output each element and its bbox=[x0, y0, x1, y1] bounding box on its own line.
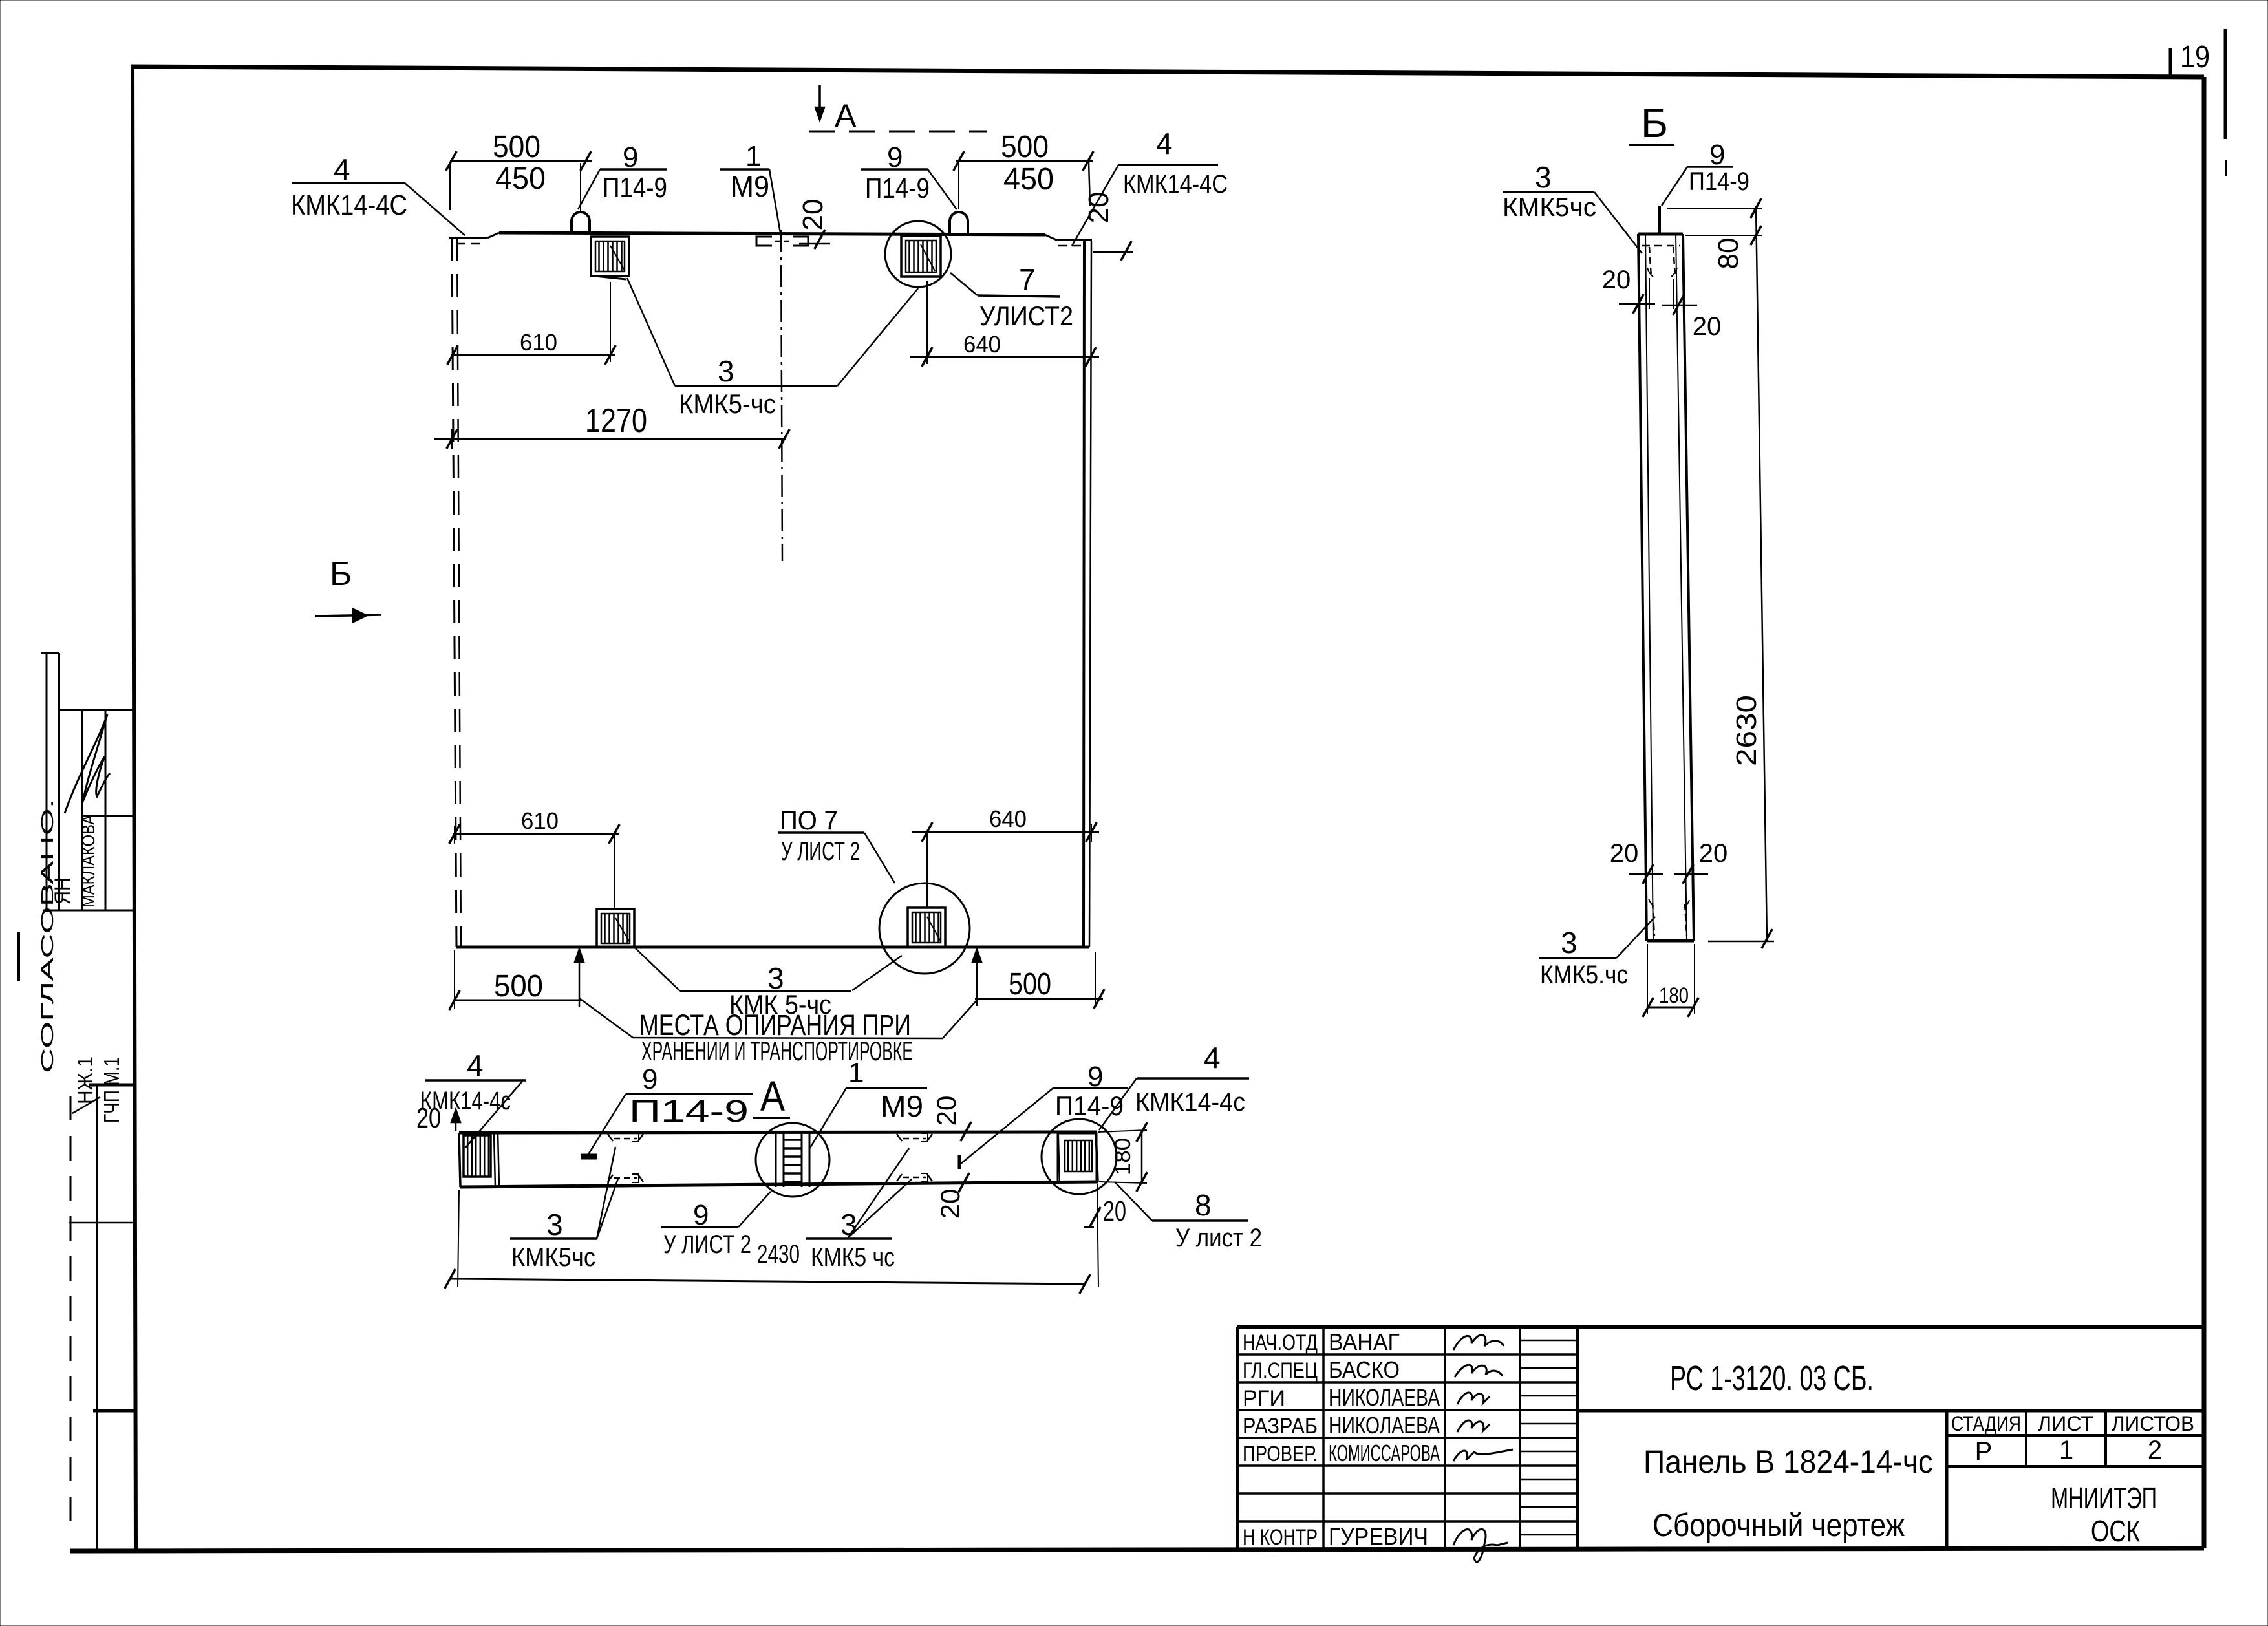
svg-text:НИКОЛАЕВА: НИКОЛАЕВА bbox=[1329, 1384, 1440, 1411]
svg-text:ПО 7: ПО 7 bbox=[780, 805, 838, 835]
svg-text:ПРОВЕР.: ПРОВЕР. bbox=[1243, 1442, 1318, 1466]
svg-text:ВАНАГ: ВАНАГ bbox=[1329, 1329, 1400, 1355]
svg-text:КМК14-4С: КМК14-4С bbox=[1123, 170, 1228, 198]
svg-text:9: 9 bbox=[642, 1064, 658, 1095]
svg-text:МАКЛАКОВА: МАКЛАКОВА bbox=[78, 815, 98, 908]
svg-text:500: 500 bbox=[494, 969, 543, 1003]
svg-text:ЛИСТОВ: ЛИСТОВ bbox=[2112, 1412, 2194, 1435]
svg-text:20: 20 bbox=[1103, 1195, 1126, 1227]
svg-text:2630: 2630 bbox=[1731, 695, 1762, 766]
svg-text:П14-9: П14-9 bbox=[1689, 167, 1749, 196]
svg-text:КМК5.чс: КМК5.чс bbox=[1540, 961, 1628, 989]
svg-text:Р: Р bbox=[1975, 1437, 1993, 1466]
svg-text:НЖ.1: НЖ.1 bbox=[73, 1056, 97, 1104]
svg-text:М9: М9 bbox=[731, 169, 769, 203]
svg-text:РАЗРАБ: РАЗРАБ bbox=[1243, 1414, 1318, 1439]
svg-text:СТАДИЯ: СТАДИЯ bbox=[1951, 1412, 2021, 1435]
svg-text:П14-9: П14-9 bbox=[865, 173, 930, 204]
svg-text:640: 640 bbox=[963, 331, 1001, 358]
svg-text:1: 1 bbox=[848, 1057, 864, 1089]
svg-text:80: 80 bbox=[1713, 238, 1744, 270]
svg-text:2: 2 bbox=[2148, 1436, 2162, 1464]
svg-text:4: 4 bbox=[467, 1049, 484, 1082]
svg-text:20: 20 bbox=[1699, 839, 1728, 868]
svg-text:610: 610 bbox=[520, 329, 557, 356]
svg-text:У ЛИСТ 2: У ЛИСТ 2 bbox=[781, 837, 860, 866]
svg-text:4: 4 bbox=[334, 153, 350, 186]
svg-text:20: 20 bbox=[416, 1102, 441, 1134]
svg-text:ХРАНЕНИИ И ТРАНСПОРТИРОВКЕ: ХРАНЕНИИ И ТРАНСПОРТИРОВКЕ bbox=[641, 1036, 913, 1066]
svg-text:БАСКО: БАСКО bbox=[1329, 1356, 1400, 1383]
svg-text:П14-9: П14-9 bbox=[603, 172, 667, 204]
svg-text:НИКОЛАЕВА: НИКОЛАЕВА bbox=[1329, 1412, 1440, 1439]
svg-text:3: 3 bbox=[718, 354, 734, 388]
svg-text:КМК14-4С: КМК14-4С bbox=[291, 189, 407, 221]
svg-text:М9: М9 bbox=[881, 1089, 923, 1123]
svg-text:20: 20 bbox=[931, 1096, 961, 1126]
svg-text:500: 500 bbox=[1009, 967, 1051, 1001]
svg-text:3: 3 bbox=[1535, 160, 1552, 194]
svg-text:КМК14-4с: КМК14-4с bbox=[1135, 1088, 1245, 1117]
svg-text:А: А bbox=[835, 98, 857, 134]
svg-text:КМК5-чс: КМК5-чс bbox=[679, 389, 776, 419]
svg-text:ОСК: ОСК bbox=[2091, 1514, 2140, 1548]
svg-text:СОГЛАСОВАНО.: СОГЛАСОВАНО. bbox=[37, 798, 57, 1073]
svg-text:У лист 2: У лист 2 bbox=[1175, 1224, 1262, 1252]
svg-text:20: 20 bbox=[1693, 312, 1722, 341]
svg-text:1270: 1270 bbox=[585, 402, 647, 440]
svg-text:500: 500 bbox=[1001, 130, 1049, 164]
svg-text:РС 1-3120. 03 СБ.: РС 1-3120. 03 СБ. bbox=[1670, 1359, 1874, 1398]
svg-text:УЛИСТ2: УЛИСТ2 bbox=[979, 301, 1073, 331]
svg-text:КМК5чс: КМК5чс bbox=[511, 1243, 595, 1272]
svg-text:ГЧП М.1: ГЧП М.1 bbox=[100, 1057, 123, 1123]
svg-text:КМК5 чс: КМК5 чс bbox=[811, 1243, 895, 1272]
svg-text:180: 180 bbox=[1659, 983, 1689, 1008]
svg-text:КОМИССАРОВА: КОМИССАРОВА bbox=[1329, 1440, 1440, 1466]
svg-text:НАЧ.ОТД: НАЧ.ОТД bbox=[1243, 1331, 1318, 1355]
svg-text:20: 20 bbox=[1610, 839, 1639, 868]
svg-text:Б: Б bbox=[330, 555, 352, 593]
svg-text:Панель В 1824-14-чс: Панель В 1824-14-чс bbox=[1643, 1444, 1933, 1480]
svg-text:500: 500 bbox=[493, 130, 540, 164]
svg-text:П14-9: П14-9 bbox=[1055, 1091, 1124, 1121]
svg-text:4: 4 bbox=[1156, 127, 1173, 160]
svg-text:ЛИСТ: ЛИСТ bbox=[2038, 1412, 2093, 1435]
svg-text:20: 20 bbox=[797, 199, 829, 231]
svg-text:450: 450 bbox=[495, 162, 546, 196]
svg-text:640: 640 bbox=[989, 806, 1027, 832]
svg-text:8: 8 bbox=[1195, 1188, 1212, 1222]
svg-text:20: 20 bbox=[935, 1189, 965, 1219]
svg-text:У ЛИСТ 2: У ЛИСТ 2 bbox=[663, 1230, 751, 1259]
svg-text:610: 610 bbox=[521, 808, 559, 834]
svg-text:А: А bbox=[760, 1072, 785, 1120]
svg-text:Б: Б bbox=[1641, 100, 1668, 146]
svg-text:МНИИТЭП: МНИИТЭП bbox=[2051, 1481, 2157, 1515]
svg-text:Сборочный чертеж: Сборочный чертеж bbox=[1653, 1507, 1905, 1543]
svg-text:1: 1 bbox=[2059, 1436, 2073, 1464]
svg-text:ГЛ.СПЕЦ: ГЛ.СПЕЦ bbox=[1243, 1358, 1318, 1383]
svg-text:3: 3 bbox=[546, 1208, 563, 1241]
svg-text:7: 7 bbox=[1019, 262, 1036, 296]
svg-text:3: 3 bbox=[1561, 926, 1578, 959]
svg-text:1: 1 bbox=[745, 140, 761, 172]
svg-text:ГУРЕВИЧ: ГУРЕВИЧ bbox=[1329, 1523, 1428, 1550]
svg-text:2430: 2430 bbox=[757, 1240, 800, 1268]
svg-text:20: 20 bbox=[1602, 266, 1631, 294]
svg-text:Н КОНТР: Н КОНТР bbox=[1243, 1525, 1318, 1550]
svg-text:РГИ: РГИ bbox=[1243, 1386, 1285, 1411]
svg-text:20: 20 bbox=[1083, 192, 1115, 224]
svg-text:КМК5чс: КМК5чс bbox=[1503, 193, 1596, 222]
svg-text:19: 19 bbox=[2180, 40, 2210, 74]
svg-text:4: 4 bbox=[1204, 1041, 1221, 1075]
svg-text:450: 450 bbox=[1003, 162, 1054, 197]
svg-text:180: 180 bbox=[1111, 1138, 1135, 1175]
svg-text:П14-9: П14-9 bbox=[629, 1095, 749, 1129]
